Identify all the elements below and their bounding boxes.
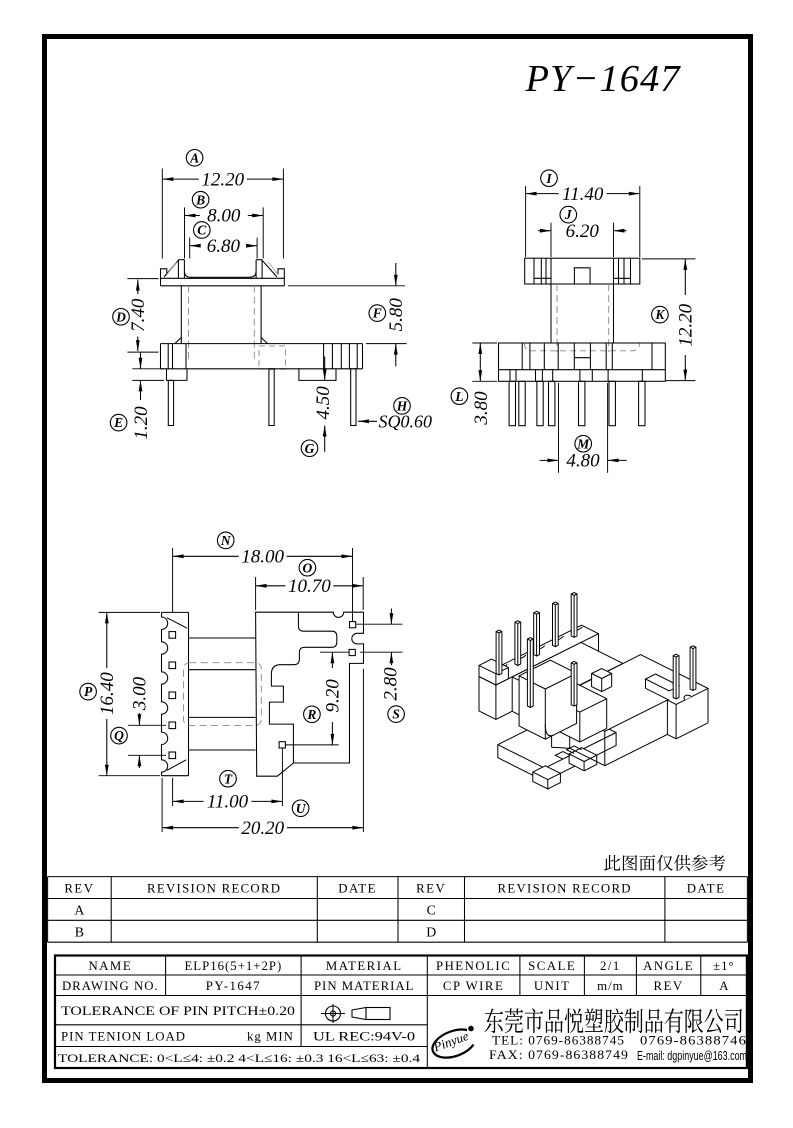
svg-text:DATE: DATE	[338, 881, 377, 895]
svg-text:20.20: 20.20	[241, 818, 284, 839]
svg-text:A: A	[189, 150, 199, 165]
svg-text:C: C	[197, 223, 207, 238]
svg-text:PY-1647: PY-1647	[206, 979, 261, 993]
svg-text:UL REC:94V-0: UL REC:94V-0	[313, 1030, 415, 1044]
svg-text:C: C	[427, 903, 436, 918]
svg-text:A: A	[74, 903, 84, 918]
svg-text:I: I	[545, 171, 552, 186]
svg-text:±1°: ±1°	[713, 959, 735, 973]
svg-text:6.80: 6.80	[207, 236, 241, 257]
svg-text:2.80: 2.80	[381, 667, 402, 701]
svg-text:REVISION RECORD: REVISION RECORD	[498, 881, 632, 895]
svg-text:0769-86388746: 0769-86388746	[640, 1033, 747, 1048]
svg-text:TEL: 0769-86388745: TEL: 0769-86388745	[492, 1033, 625, 1048]
svg-text:ELP16(5+1+2P): ELP16(5+1+2P)	[184, 959, 282, 973]
svg-text:N: N	[220, 533, 232, 548]
svg-text:CP WIRE: CP WIRE	[443, 979, 504, 993]
svg-text:12.20: 12.20	[676, 303, 697, 346]
svg-text:K: K	[654, 307, 665, 322]
svg-text:2/1: 2/1	[600, 959, 621, 973]
svg-text:4.80: 4.80	[566, 451, 600, 472]
svg-text:FAX: 0769-86388749: FAX: 0769-86388749	[489, 1047, 629, 1062]
svg-text:16.40: 16.40	[97, 672, 118, 715]
svg-text:8.00: 8.00	[207, 206, 241, 227]
svg-text:TOLERANCE: 0<L≤4: ±0.2 4<L≤1: TOLERANCE: 0<L≤4: ±0.2 4<L≤16: ±0.3 16<L…	[58, 1051, 420, 1065]
svg-text:3.00: 3.00	[130, 676, 151, 711]
svg-text:MATERIAL: MATERIAL	[326, 959, 403, 973]
svg-text:DATE: DATE	[687, 881, 726, 895]
svg-text:9.20: 9.20	[323, 679, 344, 713]
svg-text:REV: REV	[64, 881, 94, 895]
svg-text:A: A	[719, 979, 729, 993]
svg-text:E: E	[113, 415, 123, 430]
svg-text:PIN TENION LOAD: PIN TENION LOAD	[61, 1030, 186, 1044]
svg-text:T: T	[224, 771, 233, 786]
svg-text:kg MIN: kg MIN	[247, 1030, 294, 1044]
svg-text:R: R	[306, 707, 316, 722]
svg-text:5.80: 5.80	[386, 298, 407, 332]
svg-text:E-mail: dgpinyue@163.com: E-mail: dgpinyue@163.com	[637, 1049, 747, 1063]
svg-text:ANGLE: ANGLE	[643, 959, 694, 973]
svg-text:F: F	[372, 306, 382, 321]
svg-text:M: M	[576, 436, 590, 451]
svg-text:PY−1647: PY−1647	[525, 58, 682, 100]
svg-text:3.80: 3.80	[471, 391, 492, 426]
svg-text:4.50: 4.50	[313, 386, 334, 420]
svg-text:REVISION RECORD: REVISION RECORD	[147, 881, 281, 895]
svg-text:11.40: 11.40	[562, 184, 604, 205]
svg-text:S: S	[392, 707, 400, 722]
svg-text:PIN MATERIAL: PIN MATERIAL	[314, 979, 415, 993]
svg-text:REV: REV	[416, 881, 446, 895]
svg-text:TOLERANCE OF PIN PITCH±0.20: TOLERANCE OF PIN PITCH±0.20	[61, 1004, 295, 1018]
svg-text:SCALE: SCALE	[528, 959, 576, 973]
svg-text:O: O	[303, 560, 313, 575]
svg-text:D: D	[115, 309, 126, 324]
svg-text:11.00: 11.00	[207, 792, 249, 813]
svg-text:m/m: m/m	[597, 979, 623, 993]
svg-text:U: U	[296, 801, 307, 816]
svg-text:P: P	[84, 684, 93, 699]
svg-text:10.70: 10.70	[288, 576, 331, 597]
svg-text:7.40: 7.40	[128, 298, 149, 332]
svg-text:D: D	[426, 924, 436, 939]
svg-text:B: B	[75, 924, 84, 939]
svg-text:L: L	[454, 389, 463, 404]
svg-text:6.20: 6.20	[566, 221, 600, 242]
svg-text:DRAWING NO.: DRAWING NO.	[62, 979, 159, 993]
svg-text:18.00: 18.00	[241, 547, 284, 568]
svg-text:NAME: NAME	[88, 959, 132, 973]
svg-text:1.20: 1.20	[131, 406, 152, 440]
svg-text:PHENOLIC: PHENOLIC	[436, 959, 511, 973]
svg-text:UNIT: UNIT	[534, 979, 571, 993]
svg-text:G: G	[305, 441, 315, 456]
svg-text:B: B	[195, 192, 205, 207]
svg-text:REV: REV	[654, 979, 684, 993]
svg-text:H: H	[396, 399, 408, 414]
svg-text:12.20: 12.20	[201, 169, 244, 190]
svg-text:J: J	[564, 207, 573, 222]
svg-text:SQ0.60: SQ0.60	[379, 412, 433, 432]
svg-text:Q: Q	[114, 728, 124, 743]
